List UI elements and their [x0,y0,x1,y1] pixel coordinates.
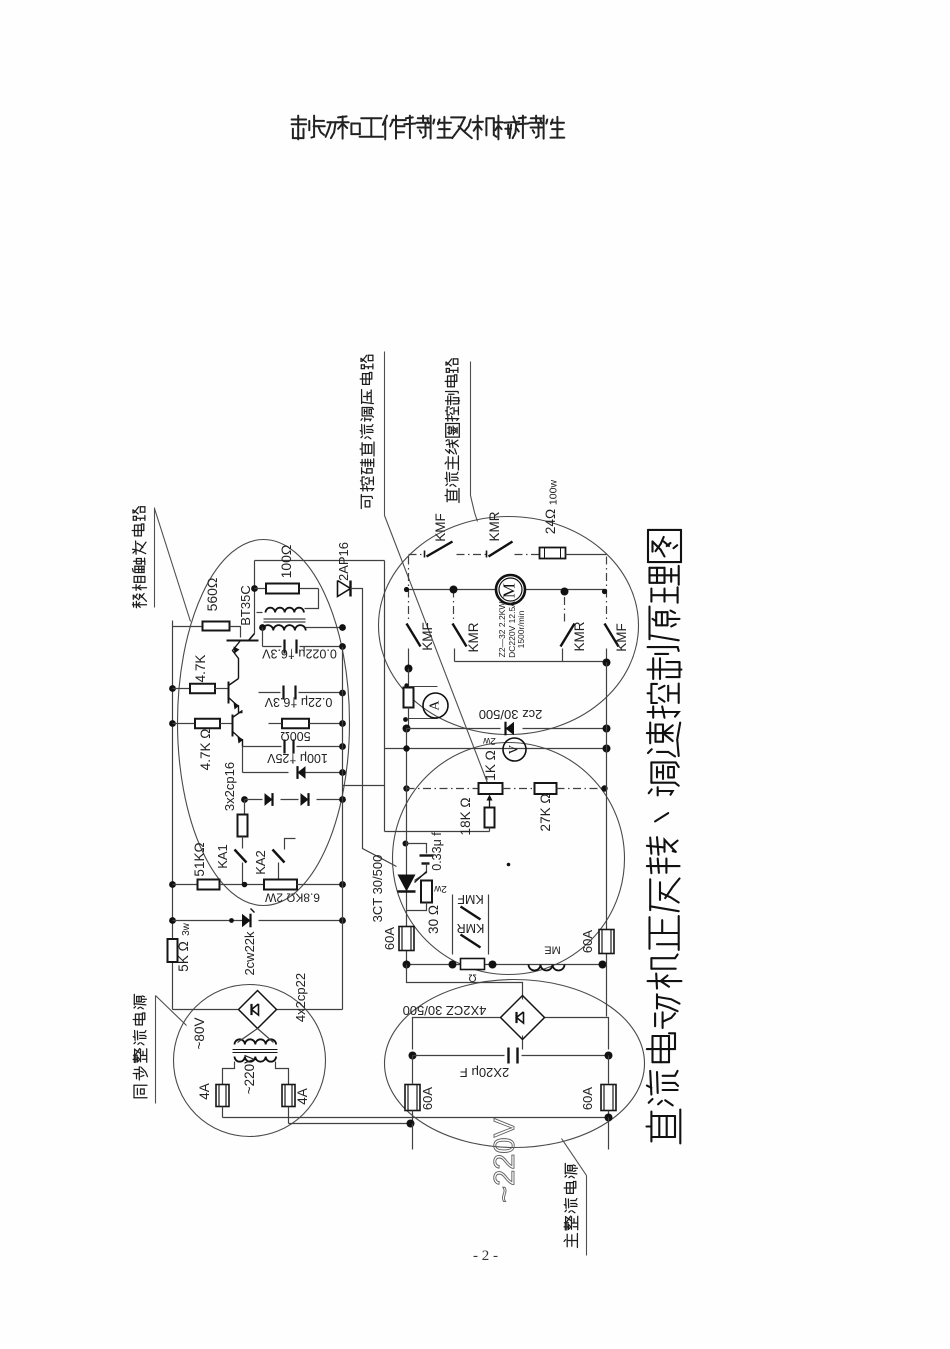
svg-text:560Ω: 560Ω [204,578,220,612]
svg-text:- 2 -: - 2 - [473,1248,498,1264]
svg-text:60A: 60A [420,1087,435,1110]
svg-text:BT35C: BT35C [238,585,253,625]
svg-text:KA2: KA2 [253,850,268,875]
svg-text:4.7K Ω: 4.7K Ω [198,729,213,771]
svg-text:Z2—32 2.2KW: Z2—32 2.2KW [497,602,507,658]
svg-text:60A: 60A [580,930,595,953]
svg-text:~220V: ~220V [242,1055,257,1094]
svg-text:60A: 60A [382,927,397,950]
svg-text:KA1: KA1 [215,844,230,869]
svg-text:100μ †25V: 100μ †25V [266,751,327,765]
svg-text:4A: 4A [295,1088,310,1105]
svg-text:6.8KΩ 2W: 6.8KΩ 2W [264,890,320,904]
svg-text:KMF: KMF [457,892,484,906]
svg-text:KMF: KMF [420,622,435,651]
svg-text:KMR: KMR [457,921,485,935]
svg-text:4X2CZ 30/500: 4X2CZ 30/500 [403,1003,487,1018]
svg-text:18K Ω: 18K Ω [458,798,473,836]
svg-text:KMR: KMR [487,511,502,541]
svg-text:27K Ω: 27K Ω [538,794,553,832]
svg-text:1K Ω: 1K Ω [483,750,498,780]
svg-text:KMF: KMF [614,623,629,652]
svg-text:KMR: KMR [572,621,587,651]
svg-text:3CT 30/500: 3CT 30/500 [370,855,385,923]
svg-text:3x2cp16: 3x2cp16 [222,762,237,811]
svg-text:0.22μ †6.3V: 0.22μ †6.3V [264,695,332,709]
svg-text:2w: 2w [433,883,447,894]
svg-text:2w: 2w [482,735,496,746]
svg-text:4.7K: 4.7K [193,655,208,683]
svg-text:V: V [505,744,520,754]
svg-text:A: A [428,700,443,711]
svg-text:5K Ω: 5K Ω [176,941,191,971]
svg-text:0.33μ f: 0.33μ f [430,832,444,871]
svg-text:M: M [499,583,518,598]
svg-text:KMR: KMR [466,622,481,652]
svg-text:51KΩ: 51KΩ [192,842,207,876]
svg-text:Ω: Ω [468,972,476,984]
svg-text:~220V: ~220V [489,1118,521,1203]
svg-text:24Ω: 24Ω [543,509,558,534]
svg-text:2cz 30/500: 2cz 30/500 [479,707,543,722]
svg-text:3w: 3w [181,922,192,936]
svg-text:1500r/min: 1500r/min [516,610,526,648]
svg-text:0.022μ †6.3V: 0.022μ †6.3V [262,647,337,661]
svg-text:4A: 4A [197,1083,212,1100]
svg-text:100Ω: 100Ω [278,545,294,579]
svg-text:~80V: ~80V [192,1018,207,1050]
svg-text:60A: 60A [580,1087,595,1110]
svg-text:ME: ME [544,944,561,956]
svg-text:4x2cp22: 4x2cp22 [293,973,308,1022]
svg-text:100w: 100w [547,480,559,506]
svg-text:2cw22k: 2cw22k [242,931,257,976]
svg-text:KMF: KMF [433,513,448,542]
svg-text:2AP16: 2AP16 [336,542,351,581]
svg-text:30 Ω: 30 Ω [426,905,441,934]
svg-text:2X20μ F: 2X20μ F [460,1065,509,1080]
